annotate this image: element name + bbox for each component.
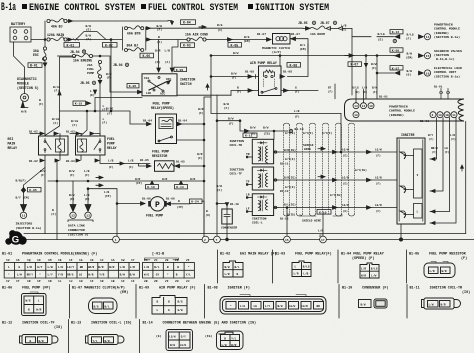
wire B/W to electrical load row3: [371, 56, 462, 79]
pinout B-02 EGI main relay: [220, 252, 277, 278]
wire PCM pin drops right: [428, 118, 456, 225]
section divider lines row1: [218, 250, 407, 283]
wire B/W main bus right: [212, 51, 394, 95]
pinout B-05 fuel pump resistor: [409, 253, 467, 278]
connector box K-03: [181, 43, 195, 48]
EGI main relay RY1: [8, 131, 69, 164]
pinout B-06 fuel pump: [2, 286, 51, 316]
wire L/B right vertical: [461, 122, 466, 234]
ignition coil TR T1: [230, 139, 279, 164]
connector box K-01: [64, 43, 80, 48]
powertrain control module PCM box: [345, 86, 464, 123]
fuse block 60A BTN / 80A BJ: [122, 26, 145, 52]
junction circles on ground bus: [113, 236, 403, 243]
pinout B-09 air pump relay: [139, 286, 196, 315]
ignition coil TF T2: [230, 167, 279, 190]
shield wire labels: [285, 131, 367, 223]
connector box B-01 left: [28, 63, 42, 68]
wire B/LG bus to relays: [60, 107, 153, 136]
pinout B-03 fuel pump relay: [275, 252, 332, 277]
wire fused B/W and B feeds: [146, 23, 303, 44]
diagnostic module terminal: [17, 77, 39, 114]
connector box K-11: [243, 133, 257, 138]
ground bus lines: [24, 229, 474, 240]
connector box K-04: [181, 20, 196, 25]
pinout B-07 magnetic clutch: [72, 286, 128, 314]
fuse 20A FUEL PUMP vertical: [80, 60, 107, 136]
wire clutch to B/L return: [290, 33, 308, 53]
wire B/LG left feed: [45, 57, 75, 136]
wire L feed to B/LG bus: [110, 40, 112, 112]
connector box K-03b: [127, 84, 139, 89]
B-01 table block2: [143, 258, 195, 283]
pinout B-04 fuel pump relay speed: [341, 253, 385, 279]
connector box K-08: [287, 63, 301, 68]
fuel pump motor P: [146, 197, 190, 218]
pinout B-12 ignition coil TF: [2, 322, 62, 345]
wire air pump relay coil feeds: [279, 55, 281, 66]
pinout B-08 igniter: [208, 286, 327, 315]
fuel pump relay speed RY4: [151, 102, 205, 144]
wire B/W to solenoid terminal row2: [390, 48, 462, 61]
wire L/B pump feed line: [87, 184, 151, 240]
section divider lines row2: [70, 285, 408, 319]
wire top B/W bus to K-04: [67, 20, 174, 25]
wire B/LG to PCM terminal row1: [352, 23, 460, 43]
wire B/W to condenser and coils: [217, 116, 304, 139]
wire fuse outputs with hop: [67, 24, 122, 41]
wire B to EGI relay: [39, 67, 46, 136]
title header: [1, 2, 329, 14]
fuel pump relay RY2: [66, 131, 117, 164]
fuse 40A BJ: [47, 18, 67, 28]
wire L/B from relay to resistor line: [100, 159, 151, 170]
air pump relay RY3: [211, 44, 318, 96]
pinout B-14 connector between engine and ignition: [143, 321, 257, 351]
wire coil TF secondary to igniter: [278, 175, 397, 193]
wire coil TR secondary to igniter: [278, 147, 397, 165]
ignition switch SW1: [142, 74, 195, 96]
connector box K-05 clutch: [228, 43, 242, 48]
wire ignition switch outputs: [90, 55, 342, 153]
wire misc drops to bus: [45, 168, 323, 237]
connector box K-19: [146, 181, 159, 189]
pinout B-11 ignition coil TR: [410, 287, 471, 310]
shield wire end caps: [284, 123, 355, 216]
section divider lines row3: [69, 320, 140, 353]
connector box K-06 ign feed: [140, 53, 154, 58]
pinout B-10 condenser: [342, 286, 388, 309]
wire battery ground drop: [14, 42, 25, 94]
ignition coil L T3: [246, 194, 278, 225]
wire B/W switch drop: [216, 95, 229, 239]
igniter U1: [397, 133, 425, 240]
fuel pump resistor R1: [152, 150, 204, 172]
connector box K-15: [73, 101, 91, 106]
wire W/R return line: [48, 176, 205, 185]
connector box K-05 inj: [28, 188, 42, 193]
wire to magnetic clutch: [232, 33, 271, 43]
wire feeds into PCM top: [328, 55, 388, 103]
ground G symbol: [5, 230, 26, 245]
B-01 table block1: [4, 259, 139, 283]
pinout section B-01 PCM table: [2, 252, 164, 257]
wire B vertical EGI coil: [51, 160, 57, 240]
pinout B-13 ignition coil L: [71, 321, 132, 345]
connector box K-10: [317, 210, 331, 215]
connector box K-02: [103, 43, 118, 48]
junction JB-05 JB-07 room fuse: [298, 21, 352, 95]
fuse 120A MAIN: [47, 33, 67, 41]
wire B/W L/B data link drops: [60, 160, 93, 237]
magnetic clutch M1: [262, 34, 290, 55]
connector box K-09: [174, 67, 187, 72]
junction block JB-04 fuse 15A ENGINE: [58, 50, 143, 94]
wire B/W EGI switch drop: [16, 160, 46, 230]
battery B1: [10, 23, 31, 42]
connector box K-13: [175, 181, 188, 189]
shield wire dashed columns: [284, 125, 355, 214]
connector box K-07b: [348, 62, 362, 67]
fuse 15A AIR COND: [185, 33, 232, 42]
wire battery to fuse node: [31, 21, 46, 47]
fuse 30A EGI vertical: [33, 47, 47, 67]
wire coil L secondary to igniter: [278, 203, 397, 221]
connector box K-24: [190, 199, 211, 234]
wire B/R and L/B into ignition switch: [155, 40, 178, 73]
condenser C1: [216, 203, 239, 240]
wire W/R vertical: [198, 97, 211, 181]
